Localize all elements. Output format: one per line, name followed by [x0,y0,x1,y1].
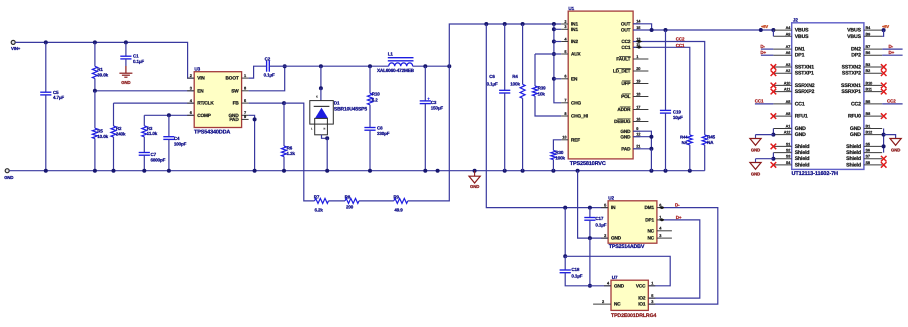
no-connect X [881,89,887,95]
wire VOUT riser to 5V rail [449,24,561,66]
svg-text:VBUS: VBUS [795,28,809,34]
svg-text:S6: S6 [866,149,870,153]
ground GND of C1 [119,72,132,74]
svg-text:49.9: 49.9 [394,207,403,212]
svg-text:0.1µF: 0.1µF [133,59,144,64]
resistor R30 [553,140,561,151]
wire D- DN2 stub [882,48,902,50]
svg-text:TPD2E001DRLRG4: TPD2E001DRLRG4 [611,313,657,319]
svg-text:GND: GND [4,175,13,180]
svg-text:10µF: 10µF [673,115,683,120]
wire D+ net from DP1 [648,220,700,298]
pin S1 Shield of J2 [773,145,791,147]
svg-text:FB: FB [233,101,240,106]
svg-text:UFP: UFP [621,81,630,86]
svg-text:SSTXN2: SSTXN2 [842,65,862,71]
svg-text:Shield: Shield [795,150,810,156]
svg-text:COMP: COMP [197,113,211,118]
svg-text:CHG_HI: CHG_HI [571,114,588,119]
svg-text:0.1µF: 0.1µF [487,81,498,86]
svg-text:A12: A12 [784,131,791,135]
svg-text:CC1: CC1 [676,43,685,48]
svg-text:S2: S2 [786,149,790,153]
svg-text:B1: B1 [866,125,871,129]
svg-text:IO2: IO2 [638,296,646,301]
pin S4 Shield of J2 [773,164,791,166]
pin 21 PAD of U1 [633,148,640,150]
svg-text:C7: C7 [151,152,157,157]
no-connect X [881,162,887,168]
svg-text:TPS54340DDA: TPS54340DDA [194,129,230,135]
svg-text:U3: U3 [194,67,200,72]
svg-text:CC2: CC2 [676,37,685,42]
wire CC1 net [633,47,690,135]
wire S2 S3 shield tie [772,153,774,159]
no-connect X [881,64,887,70]
svg-text:C2: C2 [265,57,271,62]
svg-text:A10: A10 [784,81,791,85]
capacitor C1 [125,42,127,56]
svg-text:PAD: PAD [621,146,631,151]
pin B2 SSTXP2 of J2 [864,72,882,74]
no-connect X [771,70,777,76]
svg-text:R2: R2 [116,126,122,131]
pin 17 ADDR of U1 [633,109,648,111]
capacitor C8 [364,127,375,129]
svg-text:10: 10 [562,135,566,140]
svg-text:R5: R5 [97,128,103,133]
pin A5 CC1 of J2 [773,103,791,105]
svg-text:100k: 100k [555,156,565,161]
svg-text:L1: L1 [388,52,394,57]
pin 8 SW of U3 [242,90,249,92]
svg-text:CC2: CC2 [851,101,861,107]
wire SW node [249,66,285,91]
ground arrow left upper [755,135,757,139]
svg-text:ADDR: ADDR [617,107,631,112]
svg-text:U1: U1 [568,6,574,11]
svg-text:CHG: CHG [571,100,582,105]
pin B10 SSRXN1 of J2 [864,84,882,86]
no-connect X [881,113,887,119]
wire D- net from DM1 [648,208,718,305]
svg-text:Shield: Shield [846,162,861,168]
svg-text:S3: S3 [786,155,790,159]
no-connect X [881,83,887,89]
svg-text:B11: B11 [866,88,872,92]
pin B8 RFU0 of J2 [864,115,882,117]
svg-text:150µF: 150µF [431,106,444,111]
pin 12 GND of U1 [633,136,640,138]
capacitor C6 [504,24,506,90]
wire GND link U2-U7 [589,238,591,286]
pin 18 POL of U1 [633,96,648,98]
pin 9 GND of U1 [633,130,640,132]
svg-text:CC1: CC1 [755,99,764,104]
no-connect X [881,70,887,76]
svg-text:6.2: 6.2 [372,98,379,103]
ground arrow GND mid [474,171,476,177]
svg-text:6800pF: 6800pF [151,158,166,163]
svg-text:UT12113-11602-7H: UT12113-11602-7H [792,171,839,177]
wire VCC net C18 [564,208,566,257]
svg-text:NC: NC [614,302,621,307]
svg-text:U7: U7 [612,275,618,280]
pin 10 REF of U1 [561,139,568,141]
wire VIN+ rail [15,42,194,78]
svg-text:SSRXN2: SSRXN2 [795,83,815,89]
op-amp U3 TPS54340DDA body [194,72,241,128]
pin 16 DEBUG of U1 [633,121,648,123]
resistor R45 [702,135,707,145]
svg-text:D-: D- [675,203,680,208]
capacitor C5 [45,42,47,92]
resistor R1 [94,42,96,66]
pin 7 CHG of U1 [561,102,568,104]
svg-text:NA: NA [707,140,714,145]
svg-text:Shield: Shield [795,162,810,168]
no-connect X [771,64,777,70]
no-connect X [771,89,777,95]
capacitor C17 [589,208,591,218]
svg-text:DN1: DN1 [795,47,805,53]
pin 1 FAULT of U1 [633,58,648,60]
svg-text:CC2: CC2 [887,99,896,104]
diode D1 SBR10U45SP5 [320,66,322,88]
svg-text:A9: A9 [786,32,791,36]
pin B7 DN2 of J2 [864,48,882,50]
wire [329,200,346,202]
wire FB net [249,102,284,104]
pin 14 OUT of U1 [633,23,640,25]
resistor R8 [345,198,359,203]
ground arrow right [884,135,896,139]
svg-text:B8: B8 [866,112,871,116]
svg-text:D-: D- [760,44,765,49]
svg-text:A7: A7 [786,45,791,49]
svg-text:SSRXP2: SSRXP2 [795,89,815,95]
capacitor C19 [665,30,667,110]
capacitor C18 [564,256,566,270]
svg-text:C8: C8 [377,126,383,131]
svg-text:CC1: CC1 [795,101,805,107]
svg-text:C17: C17 [595,216,604,221]
pin 8 CHG_HI of U1 [561,115,568,117]
pin 3 NC of U2 [657,237,672,239]
svg-text:GND: GND [795,132,806,138]
pin B11 SSRXP1 of J2 [864,91,882,93]
svg-text:B12: B12 [866,131,873,135]
svg-text:Shield: Shield [795,144,810,150]
svg-text:R45: R45 [707,135,716,140]
resistor R10 [369,66,371,93]
wire AUX/EN/CHG ladder [554,24,561,103]
svg-text:IN1: IN1 [571,27,578,32]
resistor R2 [113,103,115,126]
wire OUT 5V net [633,24,652,30]
svg-text:POL: POL [621,94,631,99]
no-connect X [771,83,777,89]
power +5V right [882,29,883,31]
svg-text:Shield: Shield [846,150,861,156]
pin A7 DN1 of J2 [773,48,791,50]
svg-text:7: 7 [564,98,566,103]
pin B6 DP2 of J2 [864,54,882,56]
svg-text:BOOT: BOOT [226,76,239,81]
svg-text:GND: GND [620,129,631,134]
svg-text:D1: D1 [334,101,340,106]
svg-text:R44: R44 [680,135,688,140]
wire U3 GND PAD tie [249,115,255,170]
resistor R4 [522,24,524,84]
wire COMP net [144,114,194,116]
pin 1 DP1 of U2 [657,219,664,221]
svg-text:C19: C19 [673,110,682,115]
svg-text:J2: J2 [793,18,798,23]
svg-text:0.1µF: 0.1µF [571,273,582,278]
pin A11 SSRXP2 of J2 [773,91,791,93]
ground arrow left lower [755,159,757,163]
resistor R5 [92,128,97,138]
svg-text:PAD: PAD [229,117,239,122]
svg-text:C4: C4 [174,136,180,141]
svg-text:GND: GND [795,126,806,132]
pin A6 DP1 of J2 [773,54,791,56]
svg-text:IN1: IN1 [571,22,578,27]
svg-text:R6: R6 [287,146,293,151]
svg-text:NA: NA [682,140,688,145]
resistor R44 [687,135,692,145]
svg-text:VCC: VCC [636,283,646,288]
svg-text:100pF: 100pF [174,141,187,146]
svg-text:B2: B2 [866,69,871,73]
pin 2 GND of U2 [601,237,608,239]
svg-text:A11: A11 [784,88,790,92]
svg-text:NC: NC [647,228,654,233]
wire RT/CLK net [114,102,195,104]
wire EN net [95,90,194,92]
pin 20 LD_DET of U1 [633,70,648,72]
svg-text:RFU1: RFU1 [795,114,808,120]
svg-text:4.7µF: 4.7µF [53,95,64,100]
svg-text:SW: SW [231,88,239,93]
svg-text:A3: A3 [786,63,791,67]
svg-text:D+: D+ [889,50,895,55]
pin 1 BOOT of U3 [242,77,249,79]
svg-text:D-: D- [889,44,894,49]
svg-text:VBUS: VBUS [847,28,861,34]
svg-text:Shield: Shield [846,156,861,162]
svg-text:R7: R7 [314,194,320,199]
pin B3 SSTXN2 of J2 [864,66,882,68]
resistor R6 [283,103,285,146]
capacitor C2 [266,61,268,72]
pin S7 Shield of J2 [864,158,882,160]
pin 6 COMP of U3 [187,114,194,116]
no-connect X [771,113,777,119]
svg-text:C18: C18 [571,267,580,272]
pin 5 IN of U2 [601,207,608,209]
pin B4 VBUS of J2 [864,29,882,31]
pin A10 SSRXN2 of J2 [773,84,791,86]
svg-text:17: 17 [636,104,640,109]
svg-text:TPS25810RVC: TPS25810RVC [570,161,606,167]
svg-text:GND: GND [751,172,760,177]
wire CC2 net [633,42,705,135]
pin 13 CC2 of U1 [633,41,640,43]
pin 4 RT/CLK of U3 [187,102,194,104]
svg-text:DN2: DN2 [851,47,861,53]
svg-text:A6: A6 [786,51,791,55]
wire A1 A12 GND tie [772,129,774,135]
svg-text:R1: R1 [97,67,103,72]
svg-text:OUT: OUT [621,21,631,26]
wire A9 VBUS branch [772,30,774,36]
op-amp U7 TPD2E001 body [611,280,648,310]
svg-text:NC: NC [647,236,654,241]
svg-text:A1: A1 [786,125,791,129]
svg-text:R10: R10 [372,92,381,97]
capacitor C7 [139,152,150,154]
pin 2 VIN of U3 [187,77,194,79]
svg-text:39.0k: 39.0k [97,73,108,78]
pin B12 GND of J2 [864,134,882,136]
svg-text:SSRXP1: SSRXP1 [841,89,861,95]
svg-text:R30: R30 [555,150,564,155]
op-amp U2 TPS2514ADBV body [608,201,657,243]
svg-text:100k: 100k [510,81,520,86]
svg-text:R4: R4 [512,74,518,79]
svg-text:GND: GND [614,283,625,288]
wire D- to DN1 [761,48,774,50]
pin 6 EN of U1 [561,78,568,80]
wire CC2 B5 stub [882,103,902,105]
inductor L1 [388,57,414,59]
svg-text:200: 200 [346,205,354,210]
wire U2 GND to rail [578,171,609,238]
svg-text:20: 20 [636,66,640,71]
svg-text:B7: B7 [866,45,871,49]
svg-text:240k: 240k [116,132,126,137]
svg-text:K: K [316,96,318,99]
svg-text:SSRXN1: SSRXN1 [841,83,861,89]
svg-text:+5V: +5V [882,24,889,29]
svg-text:DEBUG: DEBUG [614,119,631,124]
pin A4 VBUS of J2 [773,29,791,31]
svg-text:1.2k: 1.2k [287,151,296,156]
wire B1 B12 S5 S6 GND tie [883,129,885,153]
svg-text:SSTXP1: SSTXP1 [795,71,814,77]
wire B9 VBUS branch [882,30,883,36]
wire BOOT to C2 [249,66,267,78]
svg-text:B3: B3 [866,63,871,67]
pin 2 NC of U7 [593,303,611,305]
no-connect X [881,156,887,162]
pin B1 GND of J2 [864,128,882,130]
svg-text:IN2: IN2 [571,39,578,44]
wire GND rail [9,170,705,172]
pin 3 EN of U3 [187,90,194,92]
wire 5V to U2 IN [486,24,608,208]
svg-text:RT/CLK: RT/CLK [197,101,214,106]
svg-text:VIN: VIN [197,76,205,81]
svg-text:IO1: IO1 [638,302,646,307]
capacitor C3 [424,66,426,101]
svg-text:A8: A8 [786,112,791,116]
wire CC1 to A5 [755,103,774,105]
pin 3 IN1 of U1 [561,28,568,30]
svg-text:R8: R8 [345,194,351,199]
svg-text:GND: GND [850,126,861,132]
svg-text:VBUS: VBUS [847,34,861,40]
svg-text:330pF: 330pF [377,131,390,136]
svg-text:C3: C3 [431,100,437,105]
svg-text:XAL6060-472MEB: XAL6060-472MEB [377,68,415,73]
svg-text:GND: GND [470,184,479,189]
svg-text:S8: S8 [866,161,870,165]
svg-text:Shield: Shield [795,156,810,162]
svg-text:+5V: +5V [761,24,768,29]
pin 4 NC of U2 [657,230,672,232]
capacitor C4 [168,115,170,136]
svg-text:DM1: DM1 [644,205,654,210]
svg-text:B9: B9 [866,32,871,36]
pin 6 DM1 of U2 [657,207,664,209]
svg-text:B5: B5 [866,100,871,104]
pin A3 SSTXN1 of J2 [773,66,791,68]
svg-text:SBR10U45SP5: SBR10U45SP5 [334,106,367,112]
pin 5 AUX of U1 [561,53,568,55]
svg-text:GND: GND [121,80,130,85]
pin B5 CC2 of J2 [864,103,882,105]
svg-text:SSTXN1: SSTXN1 [795,65,815,71]
wire R9 to VOUT riser [408,66,450,201]
resistor R3 [143,115,145,126]
svg-text:0.1µF: 0.1µF [264,72,275,77]
wire VOUT node [413,65,450,67]
svg-text:CC1: CC1 [621,45,631,50]
svg-text:D+: D+ [676,215,682,220]
pin A8 RFU1 of J2 [773,115,791,117]
pin A12 GND of J2 [773,134,791,136]
pin 2 IN1 of U1 [561,23,568,25]
wire [359,200,394,202]
pin A2 SSTXP1 of J2 [773,72,791,74]
svg-text:EN: EN [197,88,204,93]
wire D+ DP2 stub [882,54,902,56]
svg-text:0.1µF: 0.1µF [595,223,606,228]
svg-text:D+: D+ [760,50,766,55]
svg-text:B10: B10 [866,81,873,85]
pin S5 Shield of J2 [864,145,882,147]
svg-text:DP1: DP1 [795,53,805,59]
svg-text:GND: GND [611,236,622,241]
pin 5 IO2 of U7 [648,297,655,299]
svg-text:DP1: DP1 [645,218,654,223]
svg-text:Shield: Shield [846,144,861,150]
pin 11 CC1 of U1 [633,46,640,48]
resistor R9 [394,198,408,203]
svg-text:IN: IN [611,205,616,210]
pin 5 FB of U3 [242,102,249,104]
pin 4 IN2 of U1 [561,41,568,43]
svg-text:A2: A2 [786,69,791,73]
svg-text:LD_DET: LD_DET [613,69,631,74]
node GND terminal [5,169,9,173]
svg-text:U2: U2 [608,196,614,201]
svg-text:EN: EN [571,76,578,81]
svg-text:REF: REF [571,137,580,142]
